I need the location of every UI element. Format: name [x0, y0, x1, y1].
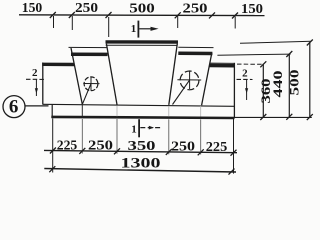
- section mark 1 bottom: arrow line: [140, 127, 161, 129]
- mid-left block: top cap band: [71, 52, 108, 56]
- anchor cross right vertical: [189, 71, 191, 89]
- section mark 2 right: arrow: [246, 80, 248, 100]
- leader left: [82, 84, 91, 105]
- extension line e1b: [71, 16, 73, 30]
- svg-text:1300: 1300: [121, 155, 161, 171]
- svg-text:150: 150: [241, 1, 263, 16]
- tick t1: [50, 12, 56, 18]
- svg-text:250: 250: [183, 1, 209, 16]
- tick t2: [106, 12, 112, 18]
- svg-text:250: 250: [88, 138, 114, 153]
- svg-text:1: 1: [131, 23, 137, 35]
- bottom extension line b5: [200, 106, 202, 117]
- svg-text:250: 250: [171, 138, 195, 153]
- axis circle 6: [3, 96, 25, 118]
- bottom-right extension line: [234, 116, 311, 118]
- extension line e4: [234, 17, 236, 29]
- section mark 2 left: dash line: [26, 78, 44, 80]
- section mark 1 bottom: bar: [138, 119, 140, 137]
- bottom extension line b2: [81, 104, 83, 116]
- center block: left slanted side: [106, 44, 117, 105]
- section mark 1 top: arrow line: [139, 28, 152, 30]
- bottom dimension line 2 (1300): [44, 169, 236, 173]
- svg-text:500: 500: [288, 70, 302, 96]
- outer-left block: top cap band: [42, 63, 74, 67]
- 440 tick bottom: [286, 114, 292, 120]
- mid-right block: right slanted side: [202, 53, 212, 105]
- anchor circle right (dashed): [180, 71, 199, 90]
- svg-text:225: 225: [206, 139, 228, 154]
- mid-left block: thin top line: [69, 46, 107, 48]
- slab bottom thick line: [51, 117, 234, 118]
- 360 extension dashes: [237, 63, 263, 65]
- axis line from circle 6: [25, 105, 48, 107]
- 500 dimension line: [309, 42, 311, 117]
- svg-text:250: 250: [75, 0, 98, 15]
- tick t4: [232, 13, 238, 19]
- outer-left block: left edge: [42, 63, 44, 105]
- top dimension line: [19, 14, 265, 17]
- anchor cross right horizontal: [177, 79, 201, 81]
- svg-text:6: 6: [9, 96, 19, 117]
- bottom extension line b1: [52, 118, 54, 172]
- center cap thin bottom line: [106, 44, 178, 46]
- svg-text:500: 500: [129, 0, 155, 15]
- tick t3: [175, 12, 181, 18]
- 360 dimension line: [262, 64, 264, 118]
- 500 tick top: [307, 40, 313, 46]
- bottom extension line b3: [116, 106, 118, 116]
- bottom extension line b4: [168, 106, 170, 116]
- outer-right cap thin top line: [210, 62, 235, 64]
- svg-text:2: 2: [242, 68, 248, 80]
- ticks line2: [49, 166, 55, 172]
- outer-right block: right edge: [233, 63, 235, 118]
- svg-text:440: 440: [271, 71, 285, 98]
- svg-text:2: 2: [32, 67, 38, 79]
- center block: top cap band: [106, 40, 179, 44]
- anchor cross left horizontal: [83, 83, 99, 85]
- extension line e3: [177, 16, 179, 28]
- extension line e1: [53, 16, 55, 28]
- outer-right block: top cap band: [209, 64, 234, 68]
- mid-right block: top cap band: [178, 52, 212, 56]
- slab left edge: [51, 104, 53, 118]
- leader right: [173, 80, 190, 104]
- extension line e2: [108, 17, 110, 37]
- 360 tick top: [260, 61, 266, 67]
- svg-text:150: 150: [22, 0, 43, 15]
- bottom ticks line1: [50, 148, 56, 154]
- svg-text:1: 1: [131, 124, 137, 136]
- section mark 2 left: arrow: [35, 80, 37, 97]
- tick t1b: [69, 12, 75, 18]
- 440 extension line: [217, 54, 290, 55]
- anchor circle left (dashed): [84, 77, 98, 91]
- svg-text:225: 225: [57, 137, 78, 152]
- 360 tick bottom: [260, 114, 266, 120]
- 500 extension line: [240, 41, 311, 43]
- slab top line A: [43, 104, 235, 106]
- bottom extension line b6: [233, 118, 235, 173]
- tick t4b: [209, 12, 215, 18]
- mid-left block: left slanted side: [71, 48, 82, 104]
- svg-text:350: 350: [128, 138, 157, 153]
- section mark 1 bottom: arrowhead: [149, 126, 154, 130]
- 440 tick top: [286, 51, 292, 57]
- mid-right block: thin top line + 440 extension: [178, 46, 213, 48]
- bottom dimension line 1: [44, 150, 237, 152]
- center block: right slanted side: [169, 44, 178, 105]
- section mark 1 top: bar: [137, 21, 139, 38]
- section mark 2 right: dash line: [237, 78, 253, 80]
- anchor cross left vertical: [90, 77, 92, 91]
- 500 tick bottom: [307, 114, 313, 120]
- 440 dimension line: [288, 54, 290, 117]
- section mark 1 top: arrowhead: [151, 27, 159, 31]
